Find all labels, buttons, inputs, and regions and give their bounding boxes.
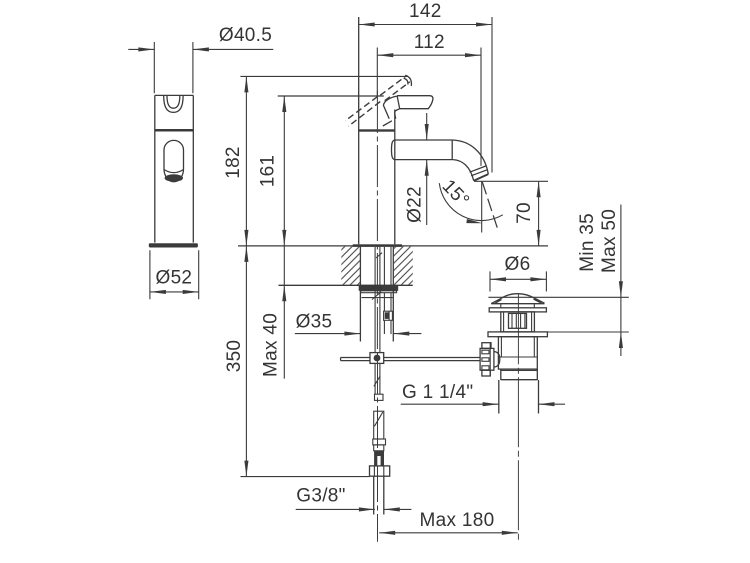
- dimension 6 line: [490, 278, 546, 280]
- plug flare sides: [491, 298, 544, 303]
- thread dark block: [374, 451, 384, 466]
- lower tube centerline: [377, 352, 379, 542]
- body joint line: [498, 337, 537, 357]
- knurled adjusting nut body: [480, 348, 494, 370]
- lower tube short segment: [374, 445, 384, 451]
- dimension Min 35 Max 50 reference lines: [488, 297, 628, 332]
- handle raised lever tip cap: [404, 75, 412, 86]
- supply hose lower lines: [384, 293, 391, 312]
- knurled adjusting nut bottom cap: [482, 370, 490, 376]
- svg-text:G 1 1/4": G 1 1/4": [402, 382, 473, 403]
- nut hub bulge: [494, 352, 500, 368]
- dimension 70 line: [538, 181, 540, 246]
- 15 degree vertical reference line: [481, 182, 483, 233]
- dimension 182 line: [245, 76, 247, 246]
- dimension 142 extension right: [491, 17, 493, 173]
- spout arm top: [395, 139, 452, 141]
- spout left rounded end: [392, 140, 396, 160]
- ribbed body outer: [501, 312, 535, 332]
- counter hatching right block: [394, 247, 413, 286]
- side view cap top line with 161 reference: [278, 95, 384, 97]
- dimension Max 180 line: [379, 532, 518, 534]
- counter bottom line: [279, 284, 413, 286]
- dimension 35 line: [295, 333, 422, 335]
- break slash on shank top: [376, 253, 382, 258]
- dimension G 1 1/4 line: [401, 403, 565, 405]
- svg-text:142: 142: [409, 1, 442, 22]
- break slash on tube: [374, 376, 380, 386]
- dimension 182 reference line: [240, 75, 407, 77]
- upper washer: [489, 308, 546, 312]
- dimension G3/8 line: [296, 508, 412, 510]
- handle grip bar: [397, 96, 433, 109]
- spout aerator end cap: [470, 166, 488, 176]
- front view spout capsule: [164, 140, 184, 181]
- dimension 52 extension lines: [150, 250, 199, 299]
- dimension 112 line: [377, 54, 481, 56]
- svg-text:70: 70: [514, 202, 535, 224]
- svg-text:Max 180: Max 180: [420, 510, 495, 531]
- dimension 22 line lower: [426, 160, 428, 225]
- knurled nut face edge: [489, 343, 491, 376]
- dimension 142 line: [359, 24, 492, 26]
- front view handle socket outer U: [164, 96, 183, 112]
- lower tube collar: [373, 439, 386, 445]
- counter top line: [238, 245, 548, 247]
- pop-up plug dome cap: [500, 294, 535, 299]
- rod linkage pivot dot: [374, 355, 381, 362]
- handle neck inner curve: [395, 109, 400, 119]
- front view faucet body: [155, 95, 194, 242]
- dimension Min 35 Max 50 line: [620, 205, 622, 357]
- svg-text:161: 161: [258, 155, 279, 188]
- front view joint band: [155, 129, 194, 132]
- svg-text:Ø35: Ø35: [296, 312, 333, 333]
- break slash below nut: [372, 292, 381, 300]
- supply hose upper lines: [384, 247, 391, 286]
- dimension 40.5 line: [128, 48, 273, 50]
- pop-up rod tube below linkage: [375, 363, 380, 394]
- svg-text:182: 182: [223, 146, 244, 179]
- svg-text:Ø22: Ø22: [404, 186, 425, 223]
- shank right wall and diameter 35 extension: [392, 247, 394, 342]
- dimension 40.5 extension lines: [154, 42, 193, 93]
- svg-text:G3/8": G3/8": [296, 486, 345, 507]
- dimension 52 line: [150, 291, 199, 293]
- handle neck outer curve: [383, 96, 396, 119]
- dimension 161 line: [283, 96, 285, 246]
- 15 degree tilted dashed line: [482, 182, 498, 232]
- dimension Max 40 line: [283, 246, 285, 379]
- G3/8 nut: [370, 466, 390, 476]
- svg-text:Min 35: Min 35: [577, 213, 598, 272]
- mounting nut lower outline: [361, 291, 397, 293]
- spout seam line: [451, 140, 453, 160]
- svg-text:Ø52: Ø52: [155, 268, 192, 289]
- side view body right edge: [394, 110, 396, 245]
- hose fitting stub: [384, 320, 391, 334]
- knurl block with ribs: [509, 313, 527, 328]
- knurl slots: [482, 350, 489, 354]
- shank bottom edge: [362, 297, 393, 299]
- hose fitting divider: [388, 311, 390, 320]
- mounting washer line: [359, 285, 399, 287]
- side view joint band: [359, 129, 395, 131]
- side view centerline: [376, 91, 378, 352]
- mounting nut dark band: [359, 286, 399, 291]
- ribbed body inner walls: [504, 312, 532, 332]
- dimension 350 line: [245, 246, 247, 477]
- svg-text:Max 40: Max 40: [261, 313, 282, 377]
- horizontal pop-up rod: [341, 358, 481, 361]
- dimension 112 extensions: [377, 48, 481, 166]
- drain centerline: [517, 294, 519, 542]
- svg-text:350: 350: [224, 340, 245, 373]
- front view spout rim arc: [164, 170, 184, 173]
- spout inner curve: [453, 160, 474, 181]
- tailpiece tube: [499, 380, 539, 414]
- rod linkage square: [370, 353, 384, 364]
- svg-text:Max 50: Max 50: [599, 209, 620, 273]
- spout outer curve: [452, 140, 488, 174]
- front view handle socket inner U: [167, 96, 180, 108]
- dimension 6 extension lines: [490, 271, 546, 291]
- handle lowered position dashed lever: [345, 97, 380, 127]
- lower tube segment with break slash: [374, 411, 384, 439]
- plug flare bottom: [491, 303, 544, 305]
- lower flange: [488, 332, 547, 337]
- side view base plate: [353, 244, 402, 247]
- lever bottom edge stroke: [383, 121, 392, 126]
- svg-text:Ø40.5: Ø40.5: [219, 25, 272, 46]
- drain body: [498, 337, 537, 369]
- counter hatching left block: [341, 247, 360, 286]
- supply tube below nut: [374, 476, 384, 514]
- hose fitting box: [384, 311, 393, 320]
- hose fitting dark cell: [385, 312, 389, 319]
- side view body left edge with 142 extension line: [358, 17, 360, 244]
- pop-up rod tube upper: [375, 247, 380, 353]
- 15 degree arc: [439, 183, 503, 220]
- front view aerator dark ellipse: [165, 174, 183, 182]
- plug neck: [501, 304, 535, 308]
- spout arm bottom: [395, 159, 453, 161]
- dimension 350 bottom reference line: [241, 476, 370, 478]
- dimension 22 line upper: [426, 113, 428, 140]
- handle raised position dashed lever: [380, 77, 410, 101]
- shank left wall and diameter 35 extension: [359, 247, 361, 342]
- tube collar: [375, 394, 384, 400]
- svg-text:Ø6: Ø6: [505, 254, 531, 275]
- knurled adjusting nut top cap: [482, 343, 491, 349]
- spout outlet reference line: [474, 180, 548, 182]
- thread band: [501, 369, 538, 380]
- svg-text:112: 112: [414, 32, 445, 53]
- front view base plate: [149, 243, 198, 247]
